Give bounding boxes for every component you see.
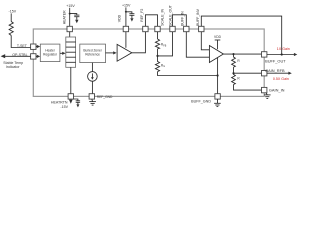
wire BUFF_INV to A2: [201, 32, 209, 50]
wire RFB1 to junction: [157, 49, 159, 56]
wire resistor to T-SET pin: [11, 35, 30, 47]
wire to GAIN_IN pin: [234, 85, 262, 91]
resistor RFB1: [155, 39, 159, 49]
ground GAIN_IN: [266, 93, 267, 95]
jumper REF_F to SCALE_IN: [145, 15, 157, 26]
svg-text:BUFF_IN: BUFF_IN: [181, 11, 185, 26]
pin BUFF_INV: [199, 26, 204, 31]
svg-text:HEATER: HEATER: [63, 10, 67, 24]
svg-text:-15V: -15V: [9, 10, 17, 14]
svg-text:T-SET: T-SET: [17, 44, 28, 48]
svg-text:BUFF_INV: BUFF_INV: [196, 8, 200, 26]
wire to mid junction: [233, 67, 235, 73]
wire SCALE_IN to divider: [157, 32, 159, 39]
pin REF_GND: [89, 94, 94, 99]
wire HEATER pin to heater element: [69, 32, 71, 37]
jumper SCALE_OUT to BUFF_IN: [173, 15, 187, 26]
svg-text:REF_F2: REF_F2: [140, 9, 144, 22]
wire +15V to HEATER pin: [69, 8, 71, 27]
wire junction to SCALE_OUT riser: [158, 32, 173, 56]
svg-text:+15V: +15V: [122, 3, 131, 7]
pin HEATRTN: [68, 94, 73, 99]
junction heater supply: [69, 13, 71, 15]
svg-text:Stable Temp: Stable Temp: [3, 61, 23, 65]
pin GAIN_RFB: [262, 71, 267, 76]
junction A2 output divider tap: [232, 53, 234, 55]
resistor R gain bottom: [232, 73, 236, 84]
arrow -15V: [69, 100, 73, 104]
jumper BUFF_INV feedback loop: [201, 16, 281, 54]
junction VDD supply: [125, 11, 127, 13]
svg-text:-15V: -15V: [60, 105, 68, 109]
heater regulator U1: [40, 44, 60, 62]
pin BUFF_IN: [184, 26, 189, 31]
svg-text:BUFF_OUT: BUFF_OUT: [265, 59, 286, 64]
wire junction to GAIN_RFB pin: [234, 72, 262, 74]
svg-text:GAIN_RFB: GAIN_RFB: [265, 68, 285, 73]
wire BUFF_OUT external arrow: [267, 54, 295, 56]
heater element ladder: [66, 37, 76, 67]
wire T-SET to heater regulator: [36, 46, 38, 48]
svg-text:VDD: VDD: [117, 14, 121, 22]
buried zener reference U2: [80, 44, 106, 63]
pin BUFF_GND: [215, 94, 220, 99]
ground BUFF_GND: [216, 99, 218, 103]
capacitor C2: [74, 99, 78, 101]
wire heater regulator to heater element: [60, 52, 63, 54]
svg-text:VDD: VDD: [214, 35, 222, 39]
current source I1: [88, 72, 98, 82]
svg-text:Regulator: Regulator: [43, 53, 58, 57]
wire OP-STBL indicator: [5, 55, 31, 57]
wire A2 ground stem to rail to BUFF_GND pin: [217, 58, 219, 94]
wire zener to op-amp A1: [106, 52, 114, 54]
resistor RG1: [155, 56, 159, 72]
svg-text:REF_GND: REF_GND: [97, 95, 113, 99]
svg-text:Indicator: Indicator: [6, 65, 21, 69]
svg-text:0.5X Gain: 0.5X Gain: [273, 77, 289, 81]
wire VDD pin to A1: [125, 32, 127, 48]
wire RG1 to ground rail: [158, 72, 218, 76]
wire heater element to HEATRTN pin: [70, 67, 72, 93]
svg-text:Reference: Reference: [85, 53, 100, 57]
junction feedback on BUFF_OUT line: [281, 53, 283, 55]
junction ground rail: [217, 74, 219, 76]
pin OP-STBL: [31, 54, 36, 59]
arrow stable temp indicator: [1, 54, 6, 58]
ground arrow C1: [75, 20, 78, 23]
wire GAIN_RFB external arrow: [267, 72, 289, 74]
svg-text:BUFF_GND: BUFF_GND: [191, 99, 211, 103]
pin SCALE_IN: [155, 26, 160, 31]
wire A1 output to REF_F pin: [132, 32, 146, 53]
wire -15V to resistor: [10, 13, 12, 21]
svg-text:G: G: [163, 66, 165, 68]
svg-text:HEATRTN: HEATRTN: [51, 100, 68, 104]
pin BUFF_OUT: [262, 52, 267, 57]
resistor R gain top: [232, 54, 236, 67]
wire OP-STBL to heater regulator: [36, 55, 38, 57]
svg-text:SCALE_IN: SCALE_IN: [160, 9, 164, 26]
ground REF_GND: [91, 99, 94, 102]
pin HEATER: [67, 26, 72, 31]
resistor R (T-SET set resistor): [9, 22, 13, 36]
capacitor C1: [70, 14, 77, 16]
junction scale divider: [156, 55, 158, 57]
pin VDD: [123, 26, 128, 31]
svg-text:FB: FB: [163, 45, 166, 47]
wire BUFF_IN to A2: [186, 32, 209, 58]
pin REF_F: [143, 26, 148, 31]
outer package boundary: [33, 29, 264, 96]
pin SCALE_OUT: [170, 26, 175, 31]
wire A2 output to BUFF_OUT pin: [223, 53, 261, 55]
svg-text:1X Gain: 1X Gain: [277, 47, 290, 51]
pin T-SET: [31, 44, 36, 49]
op-amp A2: [209, 46, 223, 63]
junction gain divider: [232, 72, 234, 74]
op-amp A1: [117, 44, 132, 61]
wire +15V to VDD pin: [125, 7, 127, 26]
wire current source to REF_GND pin: [91, 81, 93, 94]
wire zener to current source: [91, 63, 93, 72]
svg-text:+15V: +15V: [66, 4, 75, 8]
pin GAIN_IN: [262, 87, 267, 92]
svg-text:OP-STBL: OP-STBL: [12, 53, 27, 57]
svg-text:GAIN_IN: GAIN_IN: [269, 88, 285, 93]
capacitor C3: [126, 12, 132, 14]
